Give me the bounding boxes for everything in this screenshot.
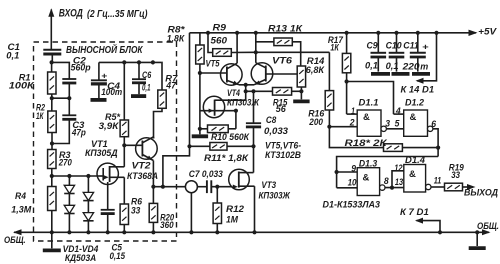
wire to D1.3 inputs: [335, 157, 439, 188]
label R15 56: [273, 97, 288, 115]
pin label 5: [395, 119, 401, 129]
svg-text:33: 33: [451, 170, 460, 181]
resistor R13: [256, 38, 301, 66]
svg-text:D1.2: D1.2: [405, 97, 425, 108]
svg-text:КП303Ж: КП303Ж: [259, 191, 291, 202]
capacitor C2: [62, 79, 76, 98]
label R9 560: [211, 22, 228, 46]
svg-text:&: &: [410, 112, 417, 123]
capacitor C5: [101, 210, 115, 233]
resistor R3: [48, 144, 56, 177]
svg-text:12: 12: [394, 163, 402, 173]
label R1 100К: [9, 72, 35, 91]
svg-text:1,8К: 1,8К: [167, 33, 185, 44]
pin label 13: [395, 177, 403, 187]
pin label 10: [348, 178, 357, 188]
svg-text:C6: C6: [142, 70, 152, 81]
svg-text:D1.1: D1.1: [359, 97, 379, 108]
node B wire: [50, 96, 72, 100]
label VT5: [206, 59, 221, 70]
svg-text:100К: 100К: [9, 81, 35, 92]
svg-text:&: &: [409, 169, 416, 180]
capacitor C3: [52, 98, 76, 143]
label К 14 D1: [401, 85, 435, 96]
ground R14 R15: [293, 91, 309, 101]
label R17 1К: [328, 35, 344, 54]
gate D1.4: [404, 165, 431, 193]
label C9: [367, 40, 379, 51]
label C10: [386, 40, 403, 51]
pin label 8: [384, 176, 389, 186]
wire К 14 D1 arrow: [416, 31, 439, 84]
resistor R20: [149, 185, 157, 233]
resistor R4: [48, 176, 56, 232]
svg-text:C7 0,033: C7 0,033: [189, 169, 224, 180]
svg-text:47p: 47p: [71, 128, 86, 139]
ground symbol right: [469, 232, 486, 248]
capacitor C8: [246, 91, 261, 146]
svg-text:0,1: 0,1: [6, 51, 19, 62]
pin label 3: [385, 119, 390, 129]
resistor R7: [154, 62, 167, 138]
label C4 100m: [101, 70, 122, 98]
svg-text:33: 33: [131, 205, 141, 216]
capacitor C10: [389, 31, 410, 74]
svg-text:3: 3: [385, 119, 390, 129]
svg-text:VT2: VT2: [132, 161, 152, 172]
resistor R16: [325, 52, 333, 129]
label R16 200: [308, 109, 325, 129]
svg-text:C8: C8: [266, 115, 277, 126]
svg-text:ОБЩ.: ОБЩ.: [477, 221, 499, 232]
pin label 2: [349, 117, 355, 127]
wire pin 1: [347, 113, 358, 115]
resistor R15: [244, 88, 302, 96]
diode VD1: [64, 176, 74, 194]
svg-text:0,15: 0,15: [110, 251, 126, 262]
wire emitter join: [239, 83, 254, 100]
label R3 270: [58, 150, 72, 169]
resistor R11: [190, 143, 256, 151]
label R8* 1,8К: [167, 24, 186, 44]
svg-text:КП305Д: КП305Д: [85, 148, 118, 159]
pin label 11: [434, 176, 442, 186]
wire К 7 D1 arrow: [415, 218, 440, 233]
label R13 1К: [268, 23, 303, 34]
wire C7 to VT3 gate: [211, 185, 232, 189]
wire pin 10: [337, 187, 358, 189]
label C8 0,033: [264, 115, 289, 137]
svg-text:&: &: [363, 112, 370, 123]
label ВЫНОСНОЙ БЛОК: [66, 44, 143, 56]
node C junction: [50, 141, 54, 145]
svg-text:56: 56: [276, 104, 287, 115]
transistor VT5: [221, 31, 243, 86]
label R10 560К: [211, 132, 250, 143]
label VT3 КП303Ж: [259, 180, 291, 202]
transistor VT4: [200, 96, 246, 129]
label D1-К1533ЛА3: [323, 200, 381, 211]
label VT6: [272, 56, 293, 67]
svg-text:1М: 1М: [226, 215, 239, 226]
ground bus: [13, 229, 491, 235]
ground R10 node: [192, 129, 208, 137]
gate D1.2: [404, 110, 433, 136]
svg-text:13: 13: [395, 177, 403, 187]
svg-text:220: 220: [402, 62, 421, 73]
label R18* 2К: [345, 138, 388, 149]
svg-text:R12: R12: [226, 204, 245, 215]
capacitor C1: [43, 50, 61, 63]
svg-text:2: 2: [349, 117, 355, 127]
svg-text:m: m: [420, 62, 429, 73]
svg-text:D1-К1533ЛА3: D1-К1533ЛА3: [323, 200, 381, 211]
junction dots ground bus: [50, 230, 480, 234]
resistor R10: [200, 125, 236, 133]
resistor R14: [297, 66, 305, 93]
svg-text:0,1: 0,1: [386, 61, 399, 72]
diode VD3: [83, 176, 93, 201]
pin label 12: [394, 163, 402, 173]
wire connector to C7: [197, 186, 207, 188]
resistor R17: [342, 31, 350, 114]
wire pin 8 to pins 12 13: [385, 171, 404, 190]
svg-text:КД503А: КД503А: [65, 253, 96, 264]
label R2 1К: [36, 102, 46, 122]
transistor VT2: [124, 137, 157, 187]
label VT5 VT6 КТ3102В: [265, 141, 301, 162]
capacitor C4: [91, 62, 107, 98]
label R12 1М: [226, 204, 245, 226]
svg-text:R18* 2К: R18* 2К: [345, 138, 388, 149]
svg-text:R4: R4: [15, 191, 27, 202]
label R6 33: [131, 196, 143, 216]
svg-text:1К: 1К: [36, 111, 44, 122]
svg-text:&: &: [363, 172, 370, 183]
svg-text:1К: 1К: [330, 43, 339, 54]
svg-text:D1.3: D1.3: [359, 159, 378, 170]
svg-text:560: 560: [211, 36, 228, 47]
svg-text:4: 4: [395, 106, 401, 116]
resistor R8: [196, 33, 204, 131]
power bus +5V: [190, 30, 478, 36]
remote block dashed border: [34, 42, 177, 241]
ground symbol left: [43, 232, 61, 250]
svg-text:КП303Ж: КП303Ж: [227, 97, 260, 108]
svg-text:8: 8: [384, 176, 389, 186]
resistor R19: [445, 183, 463, 191]
wire pin 9: [337, 171, 358, 173]
label VD1-VD4 КД503А: [63, 244, 99, 264]
pin label 9: [351, 164, 356, 174]
svg-text:(2 Гц...35 МГц): (2 Гц...35 МГц): [87, 8, 148, 20]
svg-text:R9: R9: [213, 22, 227, 33]
label D1.2: [405, 97, 425, 108]
gate D1.1: [357, 110, 386, 136]
wire internal bus: [99, 60, 162, 64]
svg-text:360: 360: [160, 220, 174, 231]
label C6 0,1: [142, 70, 152, 93]
label R14 6,8К: [306, 56, 325, 76]
ground for C6: [131, 94, 146, 98]
diode VD2: [64, 194, 74, 233]
label C5 0,15: [110, 243, 126, 263]
svg-text:К 7 D1: К 7 D1: [400, 207, 429, 218]
pin label 4: [395, 106, 401, 116]
label R20 360: [160, 212, 175, 231]
label +5V: [478, 27, 497, 38]
pin label 1: [351, 106, 355, 116]
label ОБЩ left: [4, 235, 26, 246]
label ОБЩ right: [477, 221, 499, 232]
node D wire: [50, 174, 97, 178]
svg-text:ОБЩ.: ОБЩ.: [4, 235, 26, 246]
wire VT5 base: [200, 72, 227, 74]
transistor VT1: [97, 163, 124, 210]
wire R16 feed: [256, 51, 330, 53]
svg-text:+5V: +5V: [478, 27, 497, 38]
svg-text:100m: 100m: [101, 87, 122, 98]
output arrow ВЫХОД: [463, 184, 476, 190]
pin label 6: [431, 119, 437, 129]
svg-text:270: 270: [58, 157, 72, 168]
diode VD4: [83, 201, 93, 233]
capacitor C6: [132, 62, 146, 94]
label R11* 1,8К: [204, 153, 249, 164]
svg-text:0,1: 0,1: [365, 61, 378, 72]
resistor R12: [213, 187, 221, 233]
label R5* 3,9К: [99, 112, 122, 132]
label VT1 КП305Д: [85, 139, 118, 159]
resistor R2: [48, 98, 56, 143]
svg-text:+: +: [422, 41, 429, 51]
label К 7 D1: [400, 207, 429, 218]
resistor R6: [120, 143, 128, 232]
wire pin 4: [347, 82, 404, 115]
label R7 47: [165, 73, 178, 91]
label D1.1: [359, 97, 379, 108]
resistor R18: [329, 127, 438, 152]
label ВХОД (2 Гц...35 МГц): [59, 8, 148, 20]
svg-text:200: 200: [308, 117, 323, 128]
capacitor C7: [207, 180, 211, 193]
svg-text:КТ368А: КТ368А: [127, 171, 158, 182]
label C11: [403, 40, 428, 51]
node A junction: [50, 60, 54, 64]
label C1 0,1: [6, 42, 20, 62]
transistor VT6: [251, 31, 297, 85]
wire pin 6 output: [433, 129, 440, 157]
wire pin 2: [329, 126, 357, 128]
svg-text:C10: C10: [386, 40, 403, 51]
label VT4 КП303Ж: [227, 88, 260, 108]
label D1.3: [359, 159, 378, 170]
label R19 33: [449, 162, 465, 181]
wire node A to C2: [52, 62, 70, 79]
svg-text:11: 11: [434, 176, 442, 186]
resistor R5: [120, 62, 128, 166]
wire pin 3 to 5: [386, 128, 403, 130]
label C7 0,033: [189, 169, 224, 180]
svg-text:VT3: VT3: [261, 180, 276, 191]
ground for C4: [91, 98, 107, 102]
label VT2 КТ368А: [127, 161, 158, 182]
svg-text:ВХОД: ВХОД: [59, 8, 83, 20]
capacitor C9: [371, 31, 391, 74]
labels 0,1 0,1 220m: [365, 61, 429, 73]
svg-text:КТ3102В: КТ3102В: [265, 150, 301, 161]
label R4 1,3М: [11, 191, 32, 216]
svg-text:6,8К: 6,8К: [306, 65, 325, 76]
svg-text:VT5: VT5: [206, 59, 221, 70]
svg-text:1: 1: [351, 106, 355, 116]
svg-text:9: 9: [351, 164, 356, 174]
svg-text:+: +: [101, 70, 107, 80]
svg-text:C9: C9: [367, 40, 379, 51]
svg-text:0,033: 0,033: [264, 126, 289, 137]
svg-text:47: 47: [165, 81, 176, 92]
svg-text:R10 560К: R10 560К: [211, 132, 250, 143]
transistor VT3: [229, 146, 255, 232]
svg-text:C11: C11: [403, 40, 419, 51]
capacitor C11: [410, 31, 430, 74]
label ВЫХОД: [464, 187, 498, 198]
svg-text:ВЫХОД: ВЫХОД: [464, 187, 498, 198]
svg-text:VT6: VT6: [272, 56, 293, 67]
svg-text:К 14 D1: К 14 D1: [401, 85, 435, 96]
gate D1.3: [357, 168, 385, 196]
svg-text:0,1: 0,1: [142, 82, 151, 93]
svg-text:560p: 560p: [71, 63, 91, 74]
svg-text:ВЫНОСНОЙ БЛОК: ВЫНОСНОЙ БЛОК: [66, 44, 143, 56]
label C2 560p: [71, 55, 91, 73]
svg-text:D1.4: D1.4: [405, 155, 426, 166]
label C3 47p: [71, 120, 86, 139]
resistor R9: [206, 31, 256, 57]
svg-text:3,9К: 3,9К: [99, 121, 120, 132]
node input ВХОД arrow: [48, 8, 54, 50]
label D1.4: [405, 155, 426, 166]
svg-text:10: 10: [348, 178, 357, 188]
wire pin 11 to R19: [431, 186, 445, 188]
svg-text:R11* 1,8К: R11* 1,8К: [204, 153, 249, 164]
connector X1: [185, 181, 197, 233]
svg-text:1,3М: 1,3М: [11, 205, 32, 216]
wire feedback jog: [161, 33, 192, 189]
wire output line: [153, 186, 185, 188]
resistor R1: [48, 62, 56, 98]
